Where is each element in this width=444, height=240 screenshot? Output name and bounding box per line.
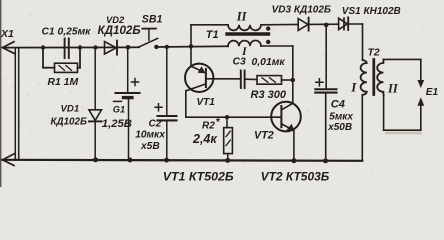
transformer T2 core xyxy=(372,60,375,95)
resistor R1 xyxy=(43,48,80,73)
label VD2 xyxy=(98,14,141,37)
transformer T1 core xyxy=(227,32,269,35)
svg-text:х5В: х5В xyxy=(140,141,160,152)
label C1 value xyxy=(42,26,92,37)
resistor R3 xyxy=(257,76,293,85)
transformer T1 winding II lead xyxy=(191,25,228,47)
transformer T1 winding II xyxy=(228,24,298,30)
node VD1 bottom xyxy=(93,157,98,162)
wire bottom rail xyxy=(3,160,363,161)
label R3 value xyxy=(251,89,287,101)
label R1 value xyxy=(48,77,79,88)
connector X1 top arrow xyxy=(3,42,15,54)
node C1 right xyxy=(78,45,82,49)
svg-text:х50В: х50В xyxy=(327,122,352,133)
svg-text:VD3 КД102Б: VD3 КД102Б xyxy=(272,5,331,16)
label T1 winding II xyxy=(236,10,248,24)
battery G1 xyxy=(114,47,140,159)
svg-text:VT2 КТ503Б: VT2 КТ503Б xyxy=(261,169,330,183)
svg-text:2,4к: 2,4к xyxy=(192,132,217,146)
label C3 value xyxy=(233,57,286,68)
node SB1 right xyxy=(154,45,158,49)
scan smudge xyxy=(385,132,422,135)
switch SB1 xyxy=(139,29,157,47)
wire top rail mid xyxy=(156,45,228,48)
transistor VT2 xyxy=(271,102,301,161)
svg-text:R3 300: R3 300 xyxy=(251,89,287,101)
svg-text:SB1: SB1 xyxy=(142,14,163,26)
svg-text:10мкх: 10мкх xyxy=(135,130,166,141)
diode VD2 xyxy=(105,41,118,55)
svg-text:КД102Б: КД102Б xyxy=(51,116,87,127)
capacitor C2 xyxy=(155,47,177,160)
label C4 xyxy=(327,98,353,133)
svg-text:КД102Б: КД102Б xyxy=(98,24,141,37)
label VS1 xyxy=(342,6,401,17)
node C4 top xyxy=(324,23,329,28)
resistor R2 xyxy=(224,117,233,160)
svg-text:5мкх: 5мкх xyxy=(329,112,353,123)
svg-text:С3: С3 xyxy=(233,57,247,68)
svg-text:Т2: Т2 xyxy=(368,48,380,59)
label R2 xyxy=(192,116,221,146)
label T2 xyxy=(368,48,380,59)
svg-text:Т1: Т1 xyxy=(206,29,219,41)
svg-text:Е1: Е1 xyxy=(426,87,439,98)
svg-text:С4: С4 xyxy=(331,98,345,110)
svg-text:VS1 КН102В: VS1 КН102В xyxy=(342,6,401,17)
svg-text:R2: R2 xyxy=(202,121,215,132)
transistor VT1 xyxy=(185,46,213,117)
label T2 winding II xyxy=(387,82,399,96)
svg-text:VT1: VT1 xyxy=(197,97,216,108)
svg-text:II: II xyxy=(387,82,399,96)
node C2 top xyxy=(165,45,169,49)
label SB1 xyxy=(142,14,163,26)
transformer T2 winding II xyxy=(377,59,421,130)
node R2 bottom xyxy=(225,158,230,163)
label C2 xyxy=(135,119,166,152)
node G1 bottom xyxy=(128,158,133,163)
scan left edge xyxy=(0,0,2,187)
electrode E1 bottom arrow xyxy=(417,97,424,130)
label T2 winding I xyxy=(350,80,357,95)
label VD1 xyxy=(51,104,87,128)
node G1 top / SB1 left xyxy=(126,45,131,50)
node C4 bottom xyxy=(323,158,328,163)
wire VT1 collector to VT2 base xyxy=(186,116,281,118)
node VT1 emitter / T1 xyxy=(189,44,194,49)
svg-text:VD1: VD1 xyxy=(61,104,80,115)
svg-text:1,25В: 1,25В xyxy=(102,118,132,130)
label T1 winding I xyxy=(241,44,248,58)
electrode E1 top arrow xyxy=(417,59,424,88)
svg-text:С1 0,25мк: С1 0,25мк xyxy=(42,26,92,37)
label VT1 xyxy=(197,97,216,108)
capacitor C3 xyxy=(241,71,257,89)
capacitor C1 xyxy=(65,39,69,59)
svg-text:0,01мк: 0,01мк xyxy=(252,57,286,68)
paper speckles (decor, not labelled) xyxy=(3,11,433,183)
wire top rail left xyxy=(3,46,140,48)
svg-text:II: II xyxy=(236,10,248,24)
capacitor C4 xyxy=(315,25,336,161)
label E1 xyxy=(426,87,439,98)
caption VT2 type xyxy=(261,169,330,183)
svg-text:С2: С2 xyxy=(149,119,162,130)
node C1 left xyxy=(41,45,45,49)
transformer T2 winding I xyxy=(361,24,367,161)
svg-text:Х1: Х1 xyxy=(0,28,14,40)
transformer T1 winding I xyxy=(228,40,293,46)
connector X1 bottom arrow xyxy=(3,154,15,166)
connector X1 double line xyxy=(15,48,18,159)
label G1 xyxy=(102,105,132,131)
diode VD3 xyxy=(298,18,338,31)
T1 phase dot I xyxy=(266,40,270,44)
label VD3 xyxy=(272,5,331,16)
svg-text:VT2: VT2 xyxy=(254,129,274,141)
node C2 bottom xyxy=(164,158,169,163)
wire T1-I to VT2 collector xyxy=(292,46,294,103)
svg-text:I: I xyxy=(350,80,357,95)
label T1 xyxy=(206,29,219,41)
node R3/collector xyxy=(291,78,296,83)
diode VD1 xyxy=(89,48,102,160)
thyristor VS1 xyxy=(339,17,363,30)
node VT2 emitter bottom xyxy=(291,158,296,163)
svg-text:VT1 КТ502Б: VT1 КТ502Б xyxy=(163,169,234,183)
node VD1/VD2 xyxy=(93,45,97,49)
connector X1 label xyxy=(0,28,14,40)
label VT2 xyxy=(254,129,274,141)
node R2 top xyxy=(225,115,229,119)
wire VT1 base lead xyxy=(206,78,241,80)
svg-text:R1 1М: R1 1М xyxy=(48,77,79,88)
caption VT1 type xyxy=(163,169,234,183)
T1 phase dot II xyxy=(266,26,270,30)
svg-text:G1: G1 xyxy=(113,105,125,115)
